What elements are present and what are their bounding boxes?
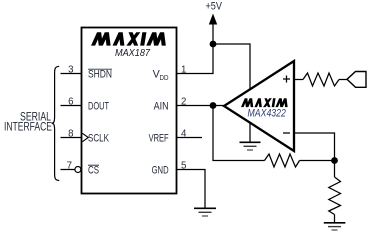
resistor R2 (feedback)	[265, 154, 300, 167]
wire pin 6 DOUT	[61, 105, 82, 107]
svg-text:1: 1	[181, 65, 186, 76]
wire op-amp V- stub	[249, 123, 251, 142]
wire pin 7 CS	[61, 169, 75, 171]
MAXIM logo (MAX187)	[91, 32, 166, 45]
wire +5V to op-amp V+	[213, 44, 250, 89]
wire AIN node to op-amp output	[213, 105, 225, 107]
ground (MAX187 GND pin)	[194, 208, 216, 216]
svg-text:AIN: AIN	[154, 101, 169, 113]
svg-text:MAX187: MAX187	[115, 48, 150, 59]
op-amp + input marker	[283, 76, 290, 83]
wire pin 4 VREF stub	[177, 137, 203, 139]
op-amp - input marker	[283, 132, 290, 134]
svg-text:DD: DD	[160, 73, 169, 82]
svg-text:7: 7	[67, 161, 72, 172]
junction +5V node	[210, 41, 217, 48]
wire pin 1 VDD	[177, 44, 214, 74]
MAXIM logo (MAX4322)	[241, 98, 288, 107]
svg-text:8: 8	[68, 129, 73, 140]
svg-text:CS: CS	[88, 165, 99, 177]
wire + input to resistor	[294, 79, 303, 81]
resistor R3 (to ground)	[329, 177, 341, 215]
svg-text:VREF: VREF	[149, 133, 169, 145]
wire - input to feedback node	[294, 133, 335, 161]
op-amp U2 MAX4322	[224, 61, 294, 151]
wire pin 5 GND	[177, 170, 206, 208]
wire AIN node down to feedback	[213, 106, 265, 161]
svg-text:4: 4	[181, 129, 187, 140]
resistor R1 (input)	[303, 73, 339, 86]
wire pin 2 AIN	[177, 105, 214, 107]
brace serial interface	[52, 66, 60, 180]
wire feedback resistor to node	[300, 160, 335, 162]
clock input triangle pin 8	[82, 133, 88, 141]
wire node to R3	[334, 161, 336, 178]
svg-text:MAX4322: MAX4322	[248, 108, 286, 120]
svg-text:SCLK: SCLK	[88, 133, 110, 145]
IC U1 MAX187 body	[82, 28, 177, 194]
ground (op-amp V-)	[240, 142, 261, 150]
active-low bubble pin 7	[75, 167, 81, 173]
wire R3 to ground	[334, 215, 336, 223]
+5V arrow	[212, 22, 214, 44]
junction AIN node	[210, 102, 217, 109]
wire resistor to connector	[339, 79, 347, 81]
ground (bottom right)	[324, 223, 346, 230]
svg-text:INTERFACE: INTERFACE	[4, 120, 52, 134]
svg-text:2: 2	[181, 97, 186, 108]
wire pin 8 SCLK	[61, 137, 82, 139]
svg-text:DOUT: DOUT	[88, 101, 109, 113]
junction feedback node	[331, 157, 338, 164]
wire pin 3 SHDN	[61, 73, 82, 75]
svg-text:5: 5	[181, 161, 186, 172]
svg-text:3: 3	[68, 65, 73, 76]
svg-text:6: 6	[68, 97, 73, 108]
input terminal connector	[347, 72, 366, 88]
svg-text:+5V: +5V	[205, 0, 222, 12]
svg-text:SHDN: SHDN	[88, 69, 112, 81]
svg-text:GND: GND	[152, 165, 169, 177]
